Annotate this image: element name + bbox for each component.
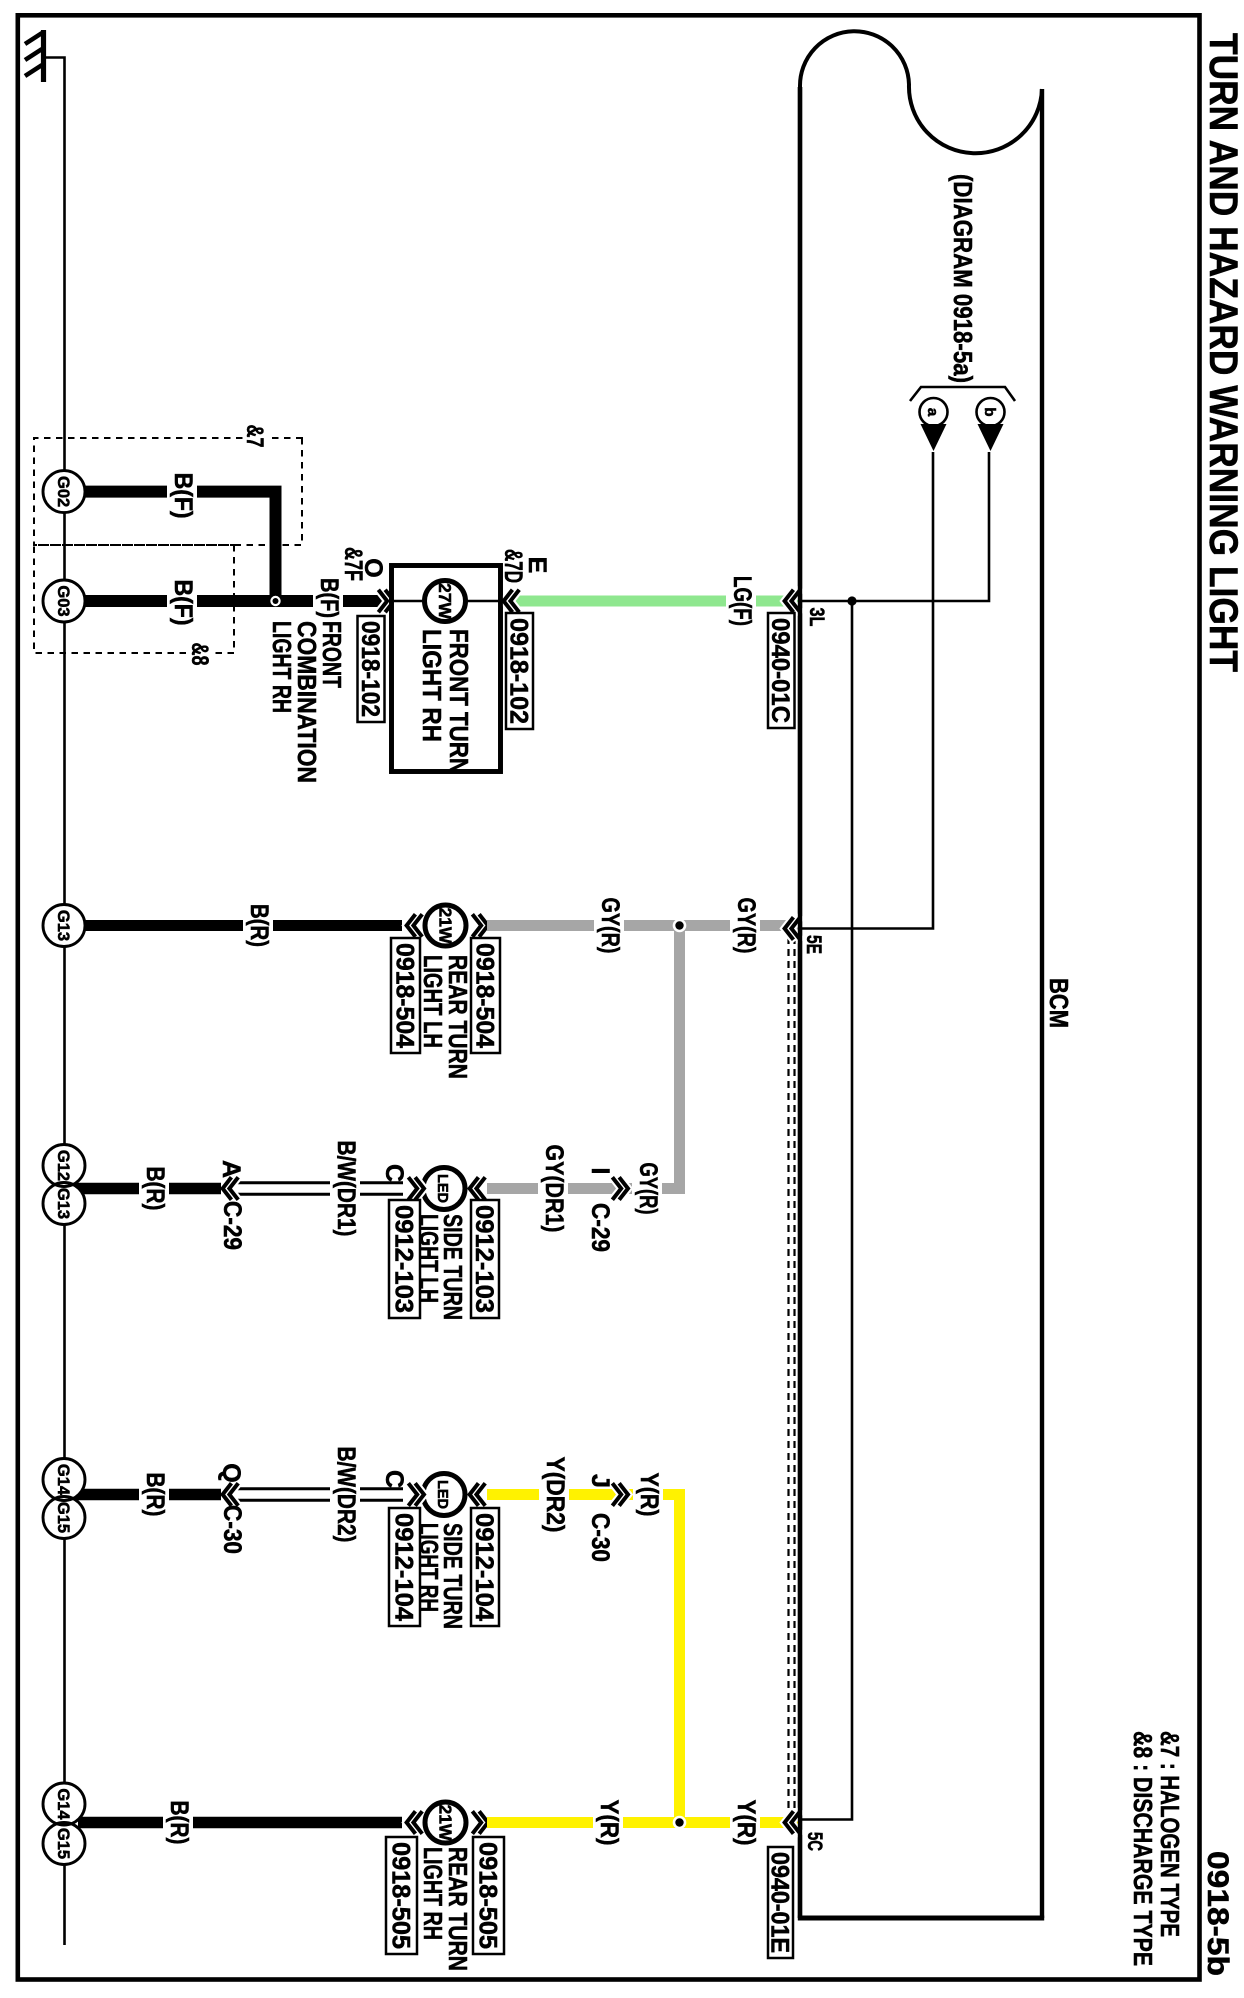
svg-text:LIGHT RH: LIGHT RH	[267, 621, 295, 713]
connector 0940-01E dashed span	[789, 937, 795, 1812]
svg-text:C-30: C-30	[218, 1505, 246, 1554]
ground bus wire	[45, 58, 65, 1946]
svg-text:G15: G15	[54, 1502, 72, 1533]
label GY(R) branch	[632, 1160, 662, 1218]
label &8	[186, 640, 213, 668]
wire GY(R) branch to side turn LH	[487, 926, 680, 1189]
wire BCM internal 5E to node a	[800, 452, 933, 929]
svg-text:27W: 27W	[435, 583, 455, 619]
svg-text:0912-104: 0912-104	[389, 1513, 417, 1621]
svg-text:G03: G03	[54, 585, 72, 616]
svg-text:LIGHT LH: LIGHT LH	[418, 955, 446, 1048]
svg-text:G12: G12	[54, 1150, 72, 1181]
label GY(R) upper	[730, 895, 760, 957]
svg-text:B(R): B(R)	[141, 1473, 169, 1517]
connector 0918-102 upper	[504, 613, 533, 729]
svg-text:0940-01C: 0940-01C	[766, 618, 794, 723]
front turn light RH box	[392, 566, 501, 772]
label B/W(DR2)	[330, 1444, 360, 1546]
svg-text:G13: G13	[54, 910, 72, 941]
connector 0940-01E	[765, 1847, 793, 1958]
svg-text:LIGHT RH: LIGHT RH	[414, 1523, 442, 1612]
ground pair G14/G15 row5	[43, 1783, 85, 1865]
svg-text:&7 : HALOGEN TYPE: &7 : HALOGEN TYPE	[1155, 1731, 1183, 1937]
svg-text:B(R): B(R)	[141, 1167, 169, 1211]
svg-text:Y(DR2): Y(DR2)	[541, 1457, 569, 1533]
wire B(R) from G12/G13	[68, 1183, 221, 1195]
label Y(R) upper	[730, 1797, 760, 1849]
node a	[920, 398, 948, 426]
wire GY(R) gray	[487, 920, 800, 931]
svg-text:a: a	[924, 408, 941, 417]
wire B(F) from G03	[78, 595, 392, 607]
connector chevron side LH top	[470, 1179, 484, 1198]
svg-text:3L: 3L	[805, 608, 829, 627]
dashed box &8 discharge option	[34, 545, 234, 653]
svg-text:G14: G14	[54, 1788, 72, 1820]
wire B/W(DR1) double line	[234, 1183, 403, 1195]
svg-text:B(F): B(F)	[169, 580, 197, 626]
svg-text:I: I	[586, 1168, 614, 1175]
arrow to node a	[921, 424, 947, 451]
svg-text:Y(R): Y(R)	[595, 1800, 623, 1846]
junction 3L/5C	[847, 596, 856, 605]
label Y(DR2)	[539, 1454, 569, 1536]
connector chevron rear RH BCM side	[474, 1813, 488, 1832]
connector 0940-01C	[766, 613, 795, 728]
svg-text:LED: LED	[434, 1174, 450, 1203]
svg-text:C-30: C-30	[586, 1513, 614, 1562]
label B(F) at connector	[313, 575, 343, 621]
svg-text:0918-5b: 0918-5b	[1201, 1851, 1234, 1976]
svg-text:B(R): B(R)	[245, 904, 273, 947]
svg-text:J: J	[586, 1474, 614, 1488]
svg-text:G14: G14	[54, 1464, 72, 1496]
connector 0912-104 upper	[470, 1508, 499, 1626]
svg-text:0912-103: 0912-103	[470, 1205, 498, 1313]
svg-text:REAR TURN: REAR TURN	[443, 955, 471, 1079]
label B(R) side LH	[139, 1164, 169, 1214]
svg-text:C: C	[380, 1470, 408, 1488]
label B(R) side RH	[139, 1470, 169, 1520]
svg-text:COMBINATION: COMBINATION	[292, 621, 320, 783]
svg-text:Q: Q	[217, 1463, 245, 1482]
svg-text:&8: &8	[186, 643, 213, 666]
connector chevron C side LH	[410, 1179, 424, 1198]
label GY(DR1)	[538, 1142, 568, 1236]
wire B(R) from G13	[78, 920, 402, 931]
svg-text:G02: G02	[54, 476, 72, 507]
connector 0912-103 upper	[470, 1200, 499, 1318]
label GY(R) lower	[594, 895, 624, 957]
svg-text:B(F): B(F)	[315, 578, 343, 618]
label B(R) rear RH	[163, 1798, 193, 1848]
wire inside front turn light	[391, 600, 501, 603]
svg-text:21W: 21W	[436, 1805, 456, 1841]
connector 0912-104 lower	[389, 1508, 420, 1626]
wire BCM internal 3L to 5C	[800, 601, 852, 1820]
svg-text:5E: 5E	[802, 935, 826, 954]
svg-text:C-29: C-29	[218, 1201, 246, 1250]
label B(R) rear LH	[243, 901, 273, 950]
svg-text:B(F): B(F)	[169, 473, 197, 519]
wire LG(F) green	[504, 596, 800, 607]
LED side turn light RH	[423, 1474, 465, 1516]
svg-text:LG(F): LG(F)	[728, 576, 756, 626]
connector chevron E	[504, 591, 518, 610]
bracket	[910, 387, 1015, 401]
svg-text:FRONT TURN: FRONT TURN	[444, 629, 472, 774]
ground pair G12/G13	[43, 1145, 85, 1225]
connector 0918-504 lower	[390, 938, 420, 1053]
connector chevron rear RH ground side	[407, 1813, 421, 1832]
junction GY(R)	[673, 919, 687, 933]
connector chevron O	[380, 591, 394, 610]
svg-text:B/W(DR1): B/W(DR1)	[332, 1141, 360, 1237]
BCM bottom edge restroke	[798, 87, 802, 1918]
svg-text:&7: &7	[241, 425, 268, 448]
connector chevron A C-29	[223, 1179, 237, 1198]
connector 0912-103 lower	[389, 1200, 420, 1318]
svg-text:0918-102: 0918-102	[356, 621, 384, 717]
node b	[977, 398, 1005, 426]
svg-text:GY(R): GY(R)	[596, 898, 624, 954]
svg-text:GY(R): GY(R)	[732, 898, 760, 954]
ground G03	[43, 580, 85, 622]
LED side turn light LH	[423, 1168, 465, 1210]
svg-text:Y(R): Y(R)	[635, 1473, 663, 1517]
connector chevron J C-30	[614, 1485, 628, 1504]
wire Y(R) branch to side turn RH	[487, 1495, 680, 1823]
wire B(R) from G14/G15 row4	[68, 1489, 221, 1501]
wire B(R) from G14/G15 row5	[78, 1817, 402, 1829]
connector 0918-102 lower	[356, 616, 385, 722]
svg-text:LIGHT RH: LIGHT RH	[417, 629, 445, 742]
svg-text:0912-104: 0912-104	[470, 1513, 498, 1621]
front turn light RH box restroke	[392, 566, 501, 772]
connector chevron 3L	[785, 591, 799, 610]
label &7	[241, 423, 268, 449]
label B(F) G02 wire	[167, 470, 197, 522]
svg-text:C: C	[380, 1164, 408, 1182]
connector 0918-504 upper	[470, 938, 500, 1053]
ground symbol	[25, 30, 44, 82]
svg-text:REAR TURN: REAR TURN	[443, 1847, 471, 1971]
svg-text:GY(R): GY(R)	[634, 1163, 662, 1215]
connector 0918-505 upper	[473, 1837, 504, 1954]
svg-text:LIGHT LH: LIGHT LH	[414, 1214, 442, 1303]
svg-text:0918-505: 0918-505	[473, 1842, 501, 1949]
svg-text:G15: G15	[54, 1828, 72, 1859]
bulb 21W rear turn light RH	[425, 1802, 466, 1843]
svg-text:B(R): B(R)	[165, 1801, 193, 1845]
connector chevron C side RH	[410, 1485, 424, 1504]
wire BCM internal 3L to node b	[800, 452, 989, 601]
label LG(F)	[726, 573, 756, 629]
svg-text:Y(R): Y(R)	[732, 1800, 760, 1846]
dashed box &7 halogen option	[34, 438, 302, 545]
wire B(F) from G02	[78, 492, 276, 601]
connector chevron 5C	[785, 1813, 799, 1832]
ground pair G14/G15 row4	[43, 1459, 85, 1539]
svg-text:C-29: C-29	[586, 1203, 614, 1252]
svg-text:0918-504: 0918-504	[390, 943, 418, 1048]
BCM module box	[798, 31, 1044, 1918]
label B/W(DR1)	[330, 1138, 360, 1240]
svg-text:BCM: BCM	[1044, 978, 1074, 1028]
connector chevron rear LH BCM side	[474, 916, 488, 935]
svg-text:GY(DR1): GY(DR1)	[540, 1145, 568, 1233]
label Y(R) branch	[633, 1470, 663, 1520]
svg-text:LIGHT RH: LIGHT RH	[418, 1847, 446, 1940]
junction B(F)	[270, 596, 280, 606]
svg-text:TURN AND HAZARD WARNING LIGHT: TURN AND HAZARD WARNING LIGHT	[1201, 33, 1244, 672]
svg-text:FRONT: FRONT	[317, 621, 345, 688]
svg-text:LED: LED	[434, 1480, 450, 1509]
svg-text:0912-103: 0912-103	[389, 1205, 417, 1313]
svg-text:&7F: &7F	[339, 547, 367, 581]
arrow to node b	[978, 424, 1004, 451]
svg-text:0918-505: 0918-505	[386, 1842, 414, 1949]
label Y(R) lower	[593, 1797, 623, 1849]
svg-text:0918-504: 0918-504	[470, 943, 498, 1048]
wire Y(R) yellow	[487, 1817, 800, 1828]
junction Y(R)	[673, 1816, 687, 1830]
svg-text:b: b	[981, 407, 998, 416]
connector chevron Q C-30	[223, 1485, 237, 1504]
svg-text:A: A	[217, 1160, 245, 1178]
wire B/W(DR2) double line	[234, 1489, 403, 1501]
connector chevron side RH top	[470, 1485, 484, 1504]
connector chevron rear LH ground side	[407, 916, 421, 935]
svg-text:B/W(DR2): B/W(DR2)	[332, 1447, 360, 1543]
svg-text:0918-102: 0918-102	[504, 618, 532, 724]
bulb 21W rear turn light LH	[425, 905, 466, 946]
connector chevron 5E	[785, 919, 799, 938]
svg-text:G13: G13	[54, 1188, 72, 1219]
svg-text:&7D: &7D	[499, 549, 527, 583]
svg-text:0940-01E: 0940-01E	[765, 1852, 793, 1953]
svg-text:5C: 5C	[803, 1832, 827, 1851]
ground G13	[43, 905, 85, 947]
svg-text:&8 : DISCHARGE TYPE: &8 : DISCHARGE TYPE	[1128, 1731, 1156, 1966]
bulb 27W front turn light RH	[425, 581, 466, 622]
svg-text:21W: 21W	[436, 908, 456, 944]
label B(F) G03 wire	[167, 577, 197, 629]
ground G02	[43, 471, 85, 513]
connector chevron I C-29	[614, 1179, 628, 1198]
svg-text:(DIAGRAM 0918-5a): (DIAGRAM 0918-5a)	[948, 174, 978, 383]
connector 0918-505 lower	[386, 1837, 417, 1954]
